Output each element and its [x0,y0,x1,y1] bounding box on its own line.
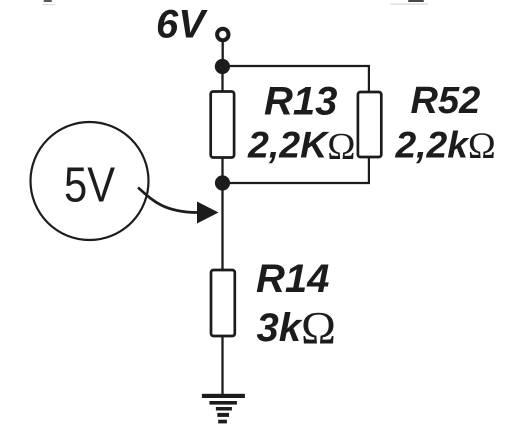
svg-text:R52: R52 [411,80,481,122]
wire node1 to R52 top [222,66,369,93]
resistor R13 body [211,92,234,158]
ground symbol [202,394,245,424]
wire R13 bottom to node2 [221,158,223,184]
svg-text:R13: R13 [264,80,337,124]
resistor R52 body [358,92,381,157]
svg-text:5V: 5V [64,159,115,213]
arrow curve from 5V circle to node [138,188,197,213]
node junction middle [215,175,230,190]
arrowhead [197,202,219,224]
svg-text:6V: 6V [156,3,208,47]
terminal 6V [217,29,228,40]
wire node2 to R52 bottom [223,156,369,183]
wire terminal to node1 [222,41,224,60]
wire node1 to R13 top [221,67,223,93]
svg-text:2,2kΩ: 2,2kΩ [395,124,496,168]
svg-text:R14: R14 [256,257,329,301]
wire R14 to ground [221,336,223,394]
svg-text:2,2KΩ: 2,2KΩ [247,124,355,169]
svg-text:3kΩ: 3kΩ [257,303,336,355]
wire node2 down to R14 [221,183,223,270]
resistor R14 body [211,270,235,336]
annotation source circle 5V [31,122,149,240]
cropped text artifact top-left [42,0,55,5]
node junction top [215,59,230,74]
cropped text artifact top-right [390,0,428,5]
